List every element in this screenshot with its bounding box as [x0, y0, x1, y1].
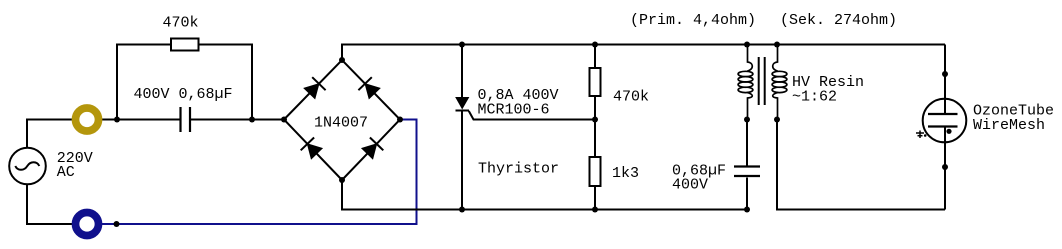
wire ozonetube bottom lead	[944, 142, 946, 209]
svg-text:(Prim. 4,4ohm): (Prim. 4,4ohm)	[630, 12, 756, 29]
svg-text:WireMesh: WireMesh	[973, 117, 1045, 134]
capacitor C2 0,68uF 400V	[734, 167, 760, 177]
svg-text:1N4007: 1N4007	[314, 114, 368, 131]
wire secondary left side down	[777, 120, 945, 210]
terminal neutral (blue ring)	[76, 213, 99, 236]
transformer T1 secondary winding	[772, 45, 787, 121]
ozone tube gas dot	[946, 129, 951, 134]
junction primary bottom	[744, 117, 750, 123]
junction bridge bottom vertex	[339, 177, 345, 183]
ozone tube electrodes	[928, 99, 958, 143]
svg-text:MCR100-6: MCR100-6	[478, 101, 550, 118]
thyristor Q1 MCR100-6	[456, 45, 470, 210]
resistor R3 1k3	[590, 157, 601, 186]
junction primary bottom rail corner	[744, 207, 750, 213]
junction on blue wire x116	[114, 221, 120, 227]
junction divider top	[592, 42, 598, 48]
svg-text:~1:62: ~1:62	[792, 89, 837, 106]
diode D1 top-left	[304, 77, 326, 98]
junction secondary top	[774, 42, 780, 48]
transformer T1 core	[759, 57, 765, 105]
wire blue return from bridge right vertex	[87, 120, 417, 225]
wire bridge top stub and top rail	[342, 45, 945, 61]
wire primary lead to capacitor	[746, 120, 748, 210]
junction bridge top vertex	[339, 57, 345, 63]
transformer T1 primary winding	[738, 45, 753, 121]
diode D4 bottom-right	[362, 138, 383, 159]
bridge rectifier B1 diamond	[284, 60, 400, 180]
AC source V1	[9, 148, 46, 185]
wire mid rail cap to bridge left vertex	[191, 119, 284, 121]
wire ozonetube top lead	[944, 45, 946, 100]
svg-text:400V: 400V	[672, 177, 708, 194]
wire AC bottom to blue terminal	[27, 185, 87, 225]
wire bridge bottom stub and bottom rail	[342, 180, 747, 210]
junction ozonetube bottom	[942, 164, 948, 170]
junction bridge right vertex	[397, 117, 403, 123]
wire divider branch leads	[594, 45, 596, 210]
junction thyristor top	[459, 42, 465, 48]
svg-text:(Sek. 274ohm): (Sek. 274ohm)	[780, 12, 897, 29]
junction thyristor bottom	[459, 207, 465, 213]
label 220V AC	[57, 150, 93, 181]
junction secondary bottom	[774, 117, 780, 123]
junction gate node	[592, 117, 598, 123]
junction primary top	[744, 42, 750, 48]
wire 470k loop	[117, 45, 252, 120]
diode D3 bottom-left	[301, 138, 322, 159]
svg-text:AC: AC	[57, 164, 75, 181]
resistor R2 470k	[590, 68, 601, 96]
wire AC top to mid rail	[27, 120, 180, 148]
junction divider bottom	[592, 207, 598, 213]
ozone tube V2 envelope	[923, 99, 967, 143]
terminal phase (yellow ring)	[76, 108, 99, 131]
svg-text:470k: 470k	[163, 15, 199, 32]
junction bridge left vertex	[281, 117, 287, 123]
svg-text:1k3: 1k3	[612, 165, 639, 182]
junction on mid rail x252	[249, 117, 255, 123]
resistor R1 470k	[171, 39, 199, 51]
svg-text:Thyristor: Thyristor	[478, 161, 559, 178]
wire gate to divider	[469, 111, 595, 120]
capacitor C1 0,68uF	[181, 107, 191, 132]
diode D2 top-right	[358, 77, 380, 98]
junction on mid rail x117	[114, 117, 120, 123]
ozone tube chassis pin	[916, 131, 927, 139]
svg-text:400V 0,68µF: 400V 0,68µF	[134, 86, 233, 103]
junction ozonetube top	[942, 71, 948, 77]
svg-text:470k: 470k	[613, 89, 649, 106]
